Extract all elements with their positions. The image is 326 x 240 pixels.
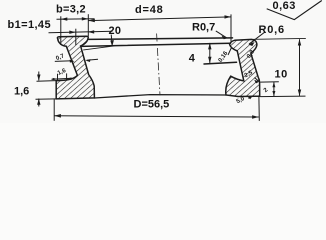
leader 20 <box>110 35 113 42</box>
dim 10 line <box>299 39 301 96</box>
leader R0,6 <box>249 32 265 44</box>
arrow 2,5 <box>254 80 259 84</box>
right rim section outline <box>226 39 260 96</box>
dim D line <box>54 116 259 117</box>
left section hatching <box>50 30 100 105</box>
leader R0,7 <box>216 31 227 38</box>
dim b=3,2 line <box>57 18 95 20</box>
dim 1,6 line bottom tail <box>38 99 40 107</box>
arrow 1,6 top (points down) <box>37 75 40 81</box>
dim b1 extension line <box>75 29 77 45</box>
centerline <box>157 34 160 96</box>
arrow R0,6 <box>248 42 254 46</box>
arrow b1 left (points right) <box>69 31 76 34</box>
arrow d left <box>88 19 95 22</box>
arrow 10 bottom (points down) <box>298 90 301 97</box>
arrow d right <box>225 15 232 18</box>
arrow b left <box>61 17 68 20</box>
leader 2,5 <box>255 78 259 82</box>
arrow 4 top <box>208 43 211 50</box>
dim d=48 line <box>88 17 231 21</box>
bottom face line <box>94 95 226 98</box>
svg-text:10: 10 <box>275 69 288 81</box>
svg-text:20: 20 <box>109 25 122 37</box>
dim 1,6 ext ledge <box>37 80 56 83</box>
top face extension right <box>254 37 306 40</box>
arrow 0,7 left <box>70 60 75 63</box>
dim 10 bottom extension <box>260 95 305 98</box>
arrow b1 right (points left) <box>88 30 95 33</box>
leader 5,0 <box>249 96 253 99</box>
left rim section outline <box>56 36 94 99</box>
ledge dim tick left <box>57 74 59 81</box>
ledge dim tick right <box>66 73 68 80</box>
small dim 0,7 right leader <box>87 59 98 60</box>
arrow 4 bottom <box>208 57 211 64</box>
roughness mark 0,63 <box>267 1 322 20</box>
shared extension line b right / d left <box>87 14 89 36</box>
svg-text:D=56,5: D=56,5 <box>134 99 170 111</box>
arrow 5,0 <box>248 96 253 100</box>
small dim 2 top extension <box>260 81 279 83</box>
svg-text:1,6: 1,6 <box>14 86 29 98</box>
svg-text:b=3,2: b=3,2 <box>56 4 86 16</box>
arrow D right <box>252 115 259 119</box>
svg-text:b1=1,45: b1=1,45 <box>8 19 51 31</box>
svg-text:4: 4 <box>189 53 196 65</box>
arrow 2 top (points up) <box>272 82 275 87</box>
svg-text:R0,7: R0,7 <box>192 21 215 33</box>
dim 1,6 ext bottom <box>36 98 57 100</box>
small dim 1,6 ledge line <box>52 77 73 80</box>
right section hatching <box>220 34 265 100</box>
small dim 0,7 underline leader <box>55 60 73 63</box>
arrow b right <box>82 17 89 20</box>
dim b1 line <box>49 31 113 33</box>
dim D extension left <box>53 99 55 121</box>
arrow 1,6 bottom (points up) <box>37 99 40 105</box>
top face line <box>89 38 233 40</box>
dim D extension right <box>258 97 260 121</box>
arrow 2 bottom (points down) <box>272 91 275 96</box>
arrow 0,7 right <box>85 59 90 62</box>
flank angle line 20deg <box>84 46 115 50</box>
arrow 1,6 ledge right (points left) <box>67 78 72 80</box>
dim d=48 extension right <box>230 14 232 42</box>
svg-text:d=48: d=48 <box>135 4 164 16</box>
svg-text:0,63: 0,63 <box>273 0 296 12</box>
groove bottom line <box>204 62 237 64</box>
arrow 1,6 ledge left (points right) <box>53 78 58 80</box>
dim b=3,2 extension line left <box>60 16 62 45</box>
leader 0,16 <box>228 48 232 56</box>
dim 1,6 line top tail <box>38 72 40 81</box>
svg-text:R0,6: R0,6 <box>259 24 285 36</box>
groove top line <box>81 43 231 46</box>
arrow 20 down <box>110 40 114 47</box>
arrow 10 top (points up) <box>298 39 301 46</box>
arrow D left <box>54 114 61 118</box>
arrow R0,7 <box>221 35 228 39</box>
small dim 2 line <box>273 82 275 96</box>
dim 4 line <box>209 43 211 63</box>
